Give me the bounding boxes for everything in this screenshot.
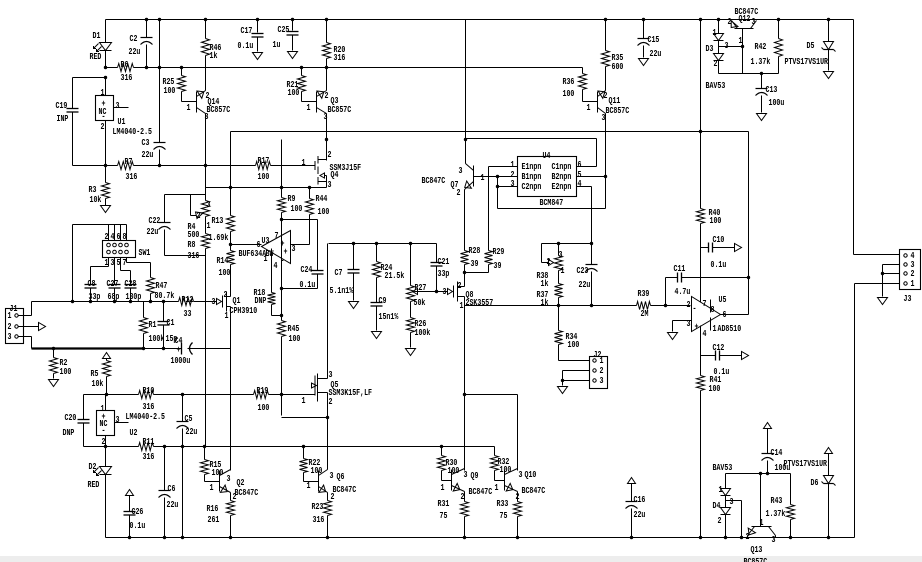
svg-text:0.1u: 0.1u <box>711 259 727 270</box>
svg-text:100: 100 <box>258 171 270 182</box>
svg-text:100: 100 <box>164 85 176 96</box>
svg-text:R1: R1 <box>149 319 157 330</box>
svg-text:100: 100 <box>212 467 224 478</box>
svg-text:22u: 22u <box>167 499 179 510</box>
svg-text:R6: R6 <box>121 59 129 70</box>
svg-text:C28: C28 <box>125 278 137 289</box>
svg-text:4: 4 <box>703 328 707 339</box>
svg-text:1: 1 <box>911 278 915 289</box>
svg-text:2: 2 <box>746 531 750 542</box>
svg-text:316: 316 <box>313 514 325 525</box>
svg-text:R44: R44 <box>316 193 328 204</box>
svg-text:75: 75 <box>440 510 448 521</box>
svg-text:R39: R39 <box>638 288 650 299</box>
svg-text:D6: D6 <box>811 477 819 488</box>
svg-text:3: 3 <box>116 414 120 425</box>
svg-text:2: 2 <box>197 210 201 221</box>
svg-text:1k: 1k <box>210 50 218 61</box>
svg-text:6: 6 <box>117 231 121 242</box>
svg-text:BC857C: BC857C <box>207 104 231 115</box>
svg-text:BC847C: BC847C <box>422 175 446 186</box>
svg-text:33: 33 <box>184 308 192 319</box>
svg-text:100: 100 <box>318 206 330 217</box>
svg-text:0.1u: 0.1u <box>130 520 146 531</box>
svg-text:1.37k: 1.37k <box>766 508 786 519</box>
svg-text:1: 1 <box>210 482 214 493</box>
svg-text:22u: 22u <box>142 149 154 160</box>
svg-text:15n1%: 15n1% <box>379 311 399 322</box>
svg-text:100: 100 <box>289 333 301 344</box>
svg-text:100: 100 <box>288 87 300 98</box>
svg-text:4: 4 <box>274 260 278 271</box>
svg-text:R16: R16 <box>207 503 219 514</box>
svg-text:1: 1 <box>187 102 191 113</box>
svg-text:600: 600 <box>612 61 624 72</box>
svg-text:1: 1 <box>739 35 743 46</box>
svg-text:100: 100 <box>60 366 72 377</box>
svg-text:R29: R29 <box>493 246 505 257</box>
svg-text:BCM847: BCM847 <box>540 197 564 208</box>
svg-text:261: 261 <box>208 514 220 525</box>
svg-text:316: 316 <box>126 171 138 182</box>
svg-text:2: 2 <box>331 491 335 502</box>
svg-text:3: 3 <box>212 296 216 307</box>
svg-text:C6: C6 <box>168 483 176 494</box>
svg-text:RED: RED <box>90 51 102 62</box>
svg-text:1: 1 <box>302 157 306 168</box>
svg-text:2: 2 <box>329 396 333 407</box>
svg-text:1: 1 <box>587 102 591 113</box>
svg-text:2: 2 <box>718 515 722 526</box>
svg-text:C2: C2 <box>130 33 138 44</box>
svg-text:1: 1 <box>101 87 105 98</box>
svg-text:R36: R36 <box>563 76 575 87</box>
svg-text:Q4: Q4 <box>331 169 339 180</box>
svg-text:3: 3 <box>459 165 463 176</box>
svg-text:PTVS17VS1UR: PTVS17VS1UR <box>784 458 828 469</box>
svg-text:3: 3 <box>687 318 691 329</box>
svg-text:3: 3 <box>602 112 606 123</box>
svg-text:U2: U2 <box>130 427 138 438</box>
svg-text:316: 316 <box>143 451 155 462</box>
svg-text:2: 2 <box>604 90 608 101</box>
svg-text:BUF634A: BUF634A <box>239 248 267 259</box>
svg-text:D2: D2 <box>89 461 97 472</box>
svg-text:1: 1 <box>460 300 464 311</box>
svg-text:80.7k: 80.7k <box>155 290 175 301</box>
svg-text:R7: R7 <box>125 156 133 167</box>
svg-text:0.1u: 0.1u <box>300 279 316 290</box>
svg-text:LM4040-2.5: LM4040-2.5 <box>113 126 153 137</box>
svg-text:4: 4 <box>111 231 115 242</box>
svg-text:+: + <box>177 344 181 355</box>
svg-text:316: 316 <box>334 52 346 63</box>
svg-text:R10: R10 <box>143 385 155 396</box>
svg-text:316: 316 <box>121 72 133 83</box>
svg-text:R42: R42 <box>755 41 767 52</box>
svg-text:3: 3 <box>443 286 447 297</box>
svg-text:3: 3 <box>292 243 296 254</box>
svg-text:2: 2 <box>328 149 332 160</box>
svg-text:Q6: Q6 <box>337 471 345 482</box>
svg-text:C17: C17 <box>241 25 253 36</box>
svg-text:1: 1 <box>307 480 311 491</box>
svg-text:D3: D3 <box>706 43 714 54</box>
svg-text:4.7u: 4.7u <box>675 286 691 297</box>
svg-text:100k: 100k <box>415 327 431 338</box>
svg-text:1: 1 <box>495 482 499 493</box>
svg-text:3: 3 <box>227 473 231 484</box>
svg-text:1: 1 <box>225 310 229 321</box>
svg-text:1: 1 <box>8 310 12 321</box>
svg-text:2: 2 <box>461 491 465 502</box>
svg-text:1k: 1k <box>541 278 549 289</box>
svg-text:BAV53: BAV53 <box>713 462 733 473</box>
svg-text:U4: U4 <box>543 150 551 161</box>
svg-text:1: 1 <box>713 27 717 38</box>
svg-text:1: 1 <box>207 220 211 231</box>
svg-text:4: 4 <box>578 178 582 189</box>
svg-text:1: 1 <box>441 482 445 493</box>
svg-text:3: 3 <box>464 469 468 480</box>
svg-text:-: - <box>281 255 285 266</box>
svg-text:-: - <box>102 425 106 436</box>
svg-text:2: 2 <box>516 491 520 502</box>
svg-text:D5: D5 <box>807 40 815 51</box>
svg-text:2: 2 <box>457 187 461 198</box>
svg-text:U3: U3 <box>262 235 270 246</box>
svg-text:-: - <box>693 303 697 314</box>
svg-text:33p: 33p <box>89 291 101 302</box>
svg-text:22u: 22u <box>634 509 646 520</box>
svg-text:BC847C: BC847C <box>333 484 357 495</box>
svg-text:7: 7 <box>703 298 707 309</box>
svg-text:2SK3557: 2SK3557 <box>466 297 494 308</box>
svg-text:1: 1 <box>561 265 565 276</box>
svg-text:3: 3 <box>330 470 334 481</box>
svg-text:3: 3 <box>116 100 120 111</box>
svg-text:1: 1 <box>307 102 311 113</box>
svg-text:2: 2 <box>102 436 106 447</box>
svg-text:C19: C19 <box>56 100 68 111</box>
svg-text:21.5k: 21.5k <box>385 270 405 281</box>
svg-text:3: 3 <box>725 40 729 51</box>
svg-text:BC857C: BC857C <box>328 104 352 115</box>
svg-text:C20: C20 <box>65 412 77 423</box>
svg-text:R28: R28 <box>469 245 481 256</box>
svg-text:100u: 100u <box>769 97 785 108</box>
svg-text:100: 100 <box>500 464 512 475</box>
svg-text:5: 5 <box>117 257 121 268</box>
svg-text:1000u: 1000u <box>171 355 191 366</box>
svg-text:INP: INP <box>57 113 69 124</box>
svg-text:BC857C: BC857C <box>606 105 630 116</box>
svg-text:1: 1 <box>302 395 306 406</box>
svg-text:100: 100 <box>563 88 575 99</box>
svg-text:C12: C12 <box>713 342 725 353</box>
svg-text:22u: 22u <box>186 426 198 437</box>
svg-text:Q13: Q13 <box>751 544 763 555</box>
svg-text:75: 75 <box>500 510 508 521</box>
svg-text:R11: R11 <box>143 436 155 447</box>
svg-text:R23: R23 <box>312 501 324 512</box>
svg-text:1.37k: 1.37k <box>751 56 771 67</box>
svg-text:3: 3 <box>600 375 604 386</box>
svg-text:PTVS17VS1UR: PTVS17VS1UR <box>785 56 829 67</box>
svg-text:39: 39 <box>494 260 502 271</box>
svg-text:100: 100 <box>291 203 303 214</box>
svg-text:1: 1 <box>719 484 723 495</box>
svg-text:130p: 130p <box>126 291 142 302</box>
svg-text:C1: C1 <box>167 317 175 328</box>
svg-text:C25: C25 <box>278 24 290 35</box>
svg-text:2: 2 <box>728 16 732 27</box>
svg-text:7: 7 <box>275 230 279 241</box>
svg-text:2: 2 <box>325 90 329 101</box>
svg-text:100: 100 <box>709 383 721 394</box>
svg-text:0.1u: 0.1u <box>238 40 254 51</box>
svg-text:2: 2 <box>458 280 462 291</box>
svg-text:316: 316 <box>188 250 200 261</box>
svg-text:C23: C23 <box>577 265 589 276</box>
svg-text:10k: 10k <box>90 194 102 205</box>
svg-text:BC847C: BC847C <box>235 487 259 498</box>
svg-text:3: 3 <box>730 496 734 507</box>
svg-text:7: 7 <box>123 257 127 268</box>
svg-text:C16: C16 <box>634 494 646 505</box>
svg-text:2: 2 <box>101 121 105 132</box>
svg-text:100: 100 <box>258 402 270 413</box>
svg-text:BC847C: BC847C <box>522 485 546 496</box>
svg-text:2: 2 <box>687 299 691 310</box>
svg-text:R43: R43 <box>771 495 783 506</box>
svg-text:R27: R27 <box>415 282 427 293</box>
svg-text:BC847C: BC847C <box>469 486 493 497</box>
svg-text:AD8510: AD8510 <box>718 323 742 334</box>
svg-text:3: 3 <box>328 179 332 190</box>
svg-text:R14: R14 <box>217 255 229 266</box>
svg-text:Q12: Q12 <box>739 13 751 24</box>
svg-text:SW1: SW1 <box>139 247 151 258</box>
svg-text:22u: 22u <box>650 48 662 59</box>
svg-text:C5: C5 <box>185 413 193 424</box>
svg-text:3: 3 <box>111 257 115 268</box>
svg-text:1: 1 <box>760 517 764 528</box>
svg-text:1: 1 <box>713 323 717 334</box>
svg-text:68p: 68p <box>108 291 120 302</box>
svg-text:1: 1 <box>105 257 109 268</box>
svg-text:BAV53: BAV53 <box>706 80 726 91</box>
svg-text:C13: C13 <box>766 84 778 95</box>
svg-text:3: 3 <box>772 534 776 545</box>
svg-text:C15: C15 <box>648 34 660 45</box>
svg-text:C21: C21 <box>438 256 450 267</box>
svg-text:Q9: Q9 <box>471 470 479 481</box>
svg-text:C26: C26 <box>132 506 144 517</box>
svg-text:R13: R13 <box>212 215 224 226</box>
svg-text:39: 39 <box>471 258 479 269</box>
svg-text:3: 3 <box>207 199 211 210</box>
svg-text:22u: 22u <box>129 46 141 57</box>
svg-text:R8: R8 <box>188 239 196 250</box>
svg-text:C27: C27 <box>107 278 119 289</box>
svg-text:50k: 50k <box>414 297 426 308</box>
svg-text:C10: C10 <box>713 234 725 245</box>
svg-text:22u: 22u <box>147 226 159 237</box>
svg-text:1: 1 <box>481 172 485 183</box>
svg-text:U5: U5 <box>719 294 727 305</box>
svg-text:3: 3 <box>8 331 12 342</box>
svg-text:D4: D4 <box>713 500 721 511</box>
svg-text:1k: 1k <box>541 297 549 308</box>
svg-text:3: 3 <box>519 469 523 480</box>
svg-text:DNP: DNP <box>63 427 75 438</box>
svg-text:2: 2 <box>224 289 228 300</box>
svg-text:100k: 100k <box>149 333 165 344</box>
svg-text:R31: R31 <box>438 498 450 509</box>
svg-text:3: 3 <box>205 111 209 122</box>
svg-text:C24: C24 <box>301 264 313 275</box>
svg-text:C9: C9 <box>379 295 387 306</box>
svg-text:+: + <box>695 321 699 332</box>
svg-text:SSM3K15F,LF: SSM3K15F,LF <box>329 387 373 398</box>
svg-text:2: 2 <box>714 58 718 69</box>
svg-text:8: 8 <box>123 231 127 242</box>
svg-text:R19: R19 <box>257 385 269 396</box>
svg-text:R12: R12 <box>182 294 194 305</box>
svg-text:BC857C: BC857C <box>744 556 768 562</box>
svg-text:22u: 22u <box>579 279 591 290</box>
svg-text:CPH3910: CPH3910 <box>230 305 258 316</box>
svg-text:5.1n1%: 5.1n1% <box>330 285 354 296</box>
svg-text:2M: 2M <box>641 308 649 319</box>
svg-text:8: 8 <box>711 304 715 315</box>
svg-text:C3: C3 <box>142 137 150 148</box>
svg-text:E2npn: E2npn <box>552 181 572 192</box>
svg-text:3: 3 <box>511 178 515 189</box>
svg-text:3: 3 <box>324 111 328 122</box>
svg-text:100: 100 <box>219 267 231 278</box>
svg-text:C14: C14 <box>771 447 783 458</box>
svg-text:C11: C11 <box>674 263 686 274</box>
svg-text:6: 6 <box>723 309 727 320</box>
svg-text:10k: 10k <box>92 378 104 389</box>
svg-text:C7: C7 <box>335 267 343 278</box>
svg-text:33p: 33p <box>438 268 450 279</box>
svg-text:3: 3 <box>559 249 563 260</box>
svg-text:C22: C22 <box>149 215 161 226</box>
svg-text:100: 100 <box>710 215 722 226</box>
svg-text:100: 100 <box>568 339 580 350</box>
svg-text:J3: J3 <box>904 293 912 304</box>
svg-text:100: 100 <box>448 465 460 476</box>
svg-text:LM4040-2.5: LM4040-2.5 <box>126 411 166 422</box>
svg-text:R17: R17 <box>258 155 270 166</box>
svg-text:2: 2 <box>547 256 551 267</box>
svg-text:C8: C8 <box>88 278 96 289</box>
svg-text:2: 2 <box>233 491 237 502</box>
svg-text:D1: D1 <box>93 30 101 41</box>
svg-text:100: 100 <box>311 465 323 476</box>
svg-text:R33: R33 <box>497 498 509 509</box>
svg-text:C2npn: C2npn <box>522 181 542 192</box>
svg-text:Q10: Q10 <box>525 469 537 480</box>
svg-text:1.69k: 1.69k <box>209 232 229 243</box>
svg-text:RED: RED <box>88 479 100 490</box>
svg-text:2: 2 <box>105 231 109 242</box>
svg-text:3: 3 <box>752 16 756 27</box>
svg-text:1u: 1u <box>273 39 281 50</box>
